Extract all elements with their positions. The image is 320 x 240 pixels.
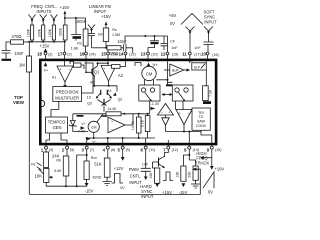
svg-text:(8): (8) [111,148,115,152]
svg-text:−: − [68,68,70,72]
svg-text:-15V: -15V [85,189,94,194]
svg-text:A2: A2 [118,73,124,78]
svg-text:51K: 51K [94,162,102,167]
svg-text:−: − [187,111,189,115]
svg-text:4X: 4X [107,89,112,93]
svg-text:10nF: 10nF [117,39,127,44]
svg-text:Q3: Q3 [87,102,92,106]
svg-text:Q2: Q2 [118,97,123,101]
svg-text:+: + [111,119,113,123]
svg-text:1M: 1M [98,33,103,37]
svg-text:(4): (4) [49,148,53,152]
svg-text:12: 12 [161,51,166,56]
svg-text:PWM: PWM [129,167,140,172]
svg-text:−: − [160,110,162,114]
svg-text:Rs: Rs [112,28,117,32]
svg-text:+: + [168,110,170,114]
svg-text:1X: 1X [87,96,92,100]
svg-text:1.8K: 1.8K [71,46,79,50]
svg-text:TRACK: TRACK [195,160,209,165]
svg-text:(15): (15) [215,148,221,152]
svg-text:+10V: +10V [214,166,224,171]
svg-text:+: + [60,68,62,72]
svg-text:-1.3V: -1.3V [151,102,160,106]
svg-text:CM: CM [146,71,153,76]
svg-text:0V: 0V [208,190,213,195]
svg-text:CNTL: CNTL [130,174,141,179]
svg-text:10K: 10K [35,174,43,179]
svg-text:V+: V+ [81,122,85,126]
svg-text:14: 14 [119,51,124,56]
svg-text:+12V: +12V [114,166,124,171]
svg-text:14.4K: 14.4K [131,120,135,130]
svg-text:12K: 12K [175,171,179,178]
svg-text:CONV: CONV [196,124,207,128]
svg-text:100K: 100K [48,28,52,37]
svg-text:(7): (7) [90,148,94,152]
svg-text:Q1: Q1 [94,70,100,75]
svg-text:9.1K: 9.1K [141,119,145,127]
svg-text:MULTIPLIER: MULTIPLIER [55,95,79,100]
svg-text:(22): (22) [129,52,135,56]
svg-text:CM: CM [91,125,97,129]
svg-text:100K: 100K [26,28,30,37]
svg-text:11: 11 [182,51,187,56]
svg-text:A1: A1 [52,76,56,80]
svg-text:SLP: SLP [194,66,201,70]
svg-text:100nF: 100nF [75,19,87,24]
svg-text:0V: 0V [170,21,175,26]
svg-text:20K: 20K [188,171,192,178]
svg-text:(16): (16) [212,53,218,57]
svg-text:VIEW: VIEW [13,100,25,105]
svg-text:1M: 1M [19,63,25,68]
svg-text:15: 15 [101,51,106,56]
svg-text:V+: V+ [44,69,49,73]
svg-text:5.6K: 5.6K [54,169,62,173]
svg-text:Rxx: Rxx [91,156,97,160]
svg-text:(12): (12) [172,148,178,152]
svg-text:470Ω: 470Ω [12,34,22,39]
svg-text:18: 18 [37,51,42,56]
svg-text:Rz: Rz [31,162,36,166]
svg-text:+15V: +15V [40,44,50,49]
svg-text:360K: 360K [59,27,63,36]
svg-text:(5): (5) [70,148,74,152]
svg-text:(23): (23) [111,52,117,56]
svg-text:10nF: 10nF [14,51,24,56]
svg-text:+15V: +15V [60,5,70,10]
svg-text:620Ω: 620Ω [93,176,102,180]
svg-text:+15V: +15V [101,14,111,19]
svg-text:(3): (3) [48,52,52,56]
svg-text:+5V: +5V [169,13,177,18]
svg-text:(2): (2) [67,52,71,56]
svg-text:1.5M: 1.5M [112,33,120,37]
svg-text:+: + [178,111,180,115]
svg-text:PRECISION: PRECISION [56,89,79,94]
svg-text:(24): (24) [89,52,95,56]
svg-text:14.4K: 14.4K [107,107,117,111]
svg-text:1nF: 1nF [171,46,178,50]
svg-text:200K: 200K [37,28,41,37]
svg-text:10: 10 [201,51,206,56]
svg-text:Rs: Rs [77,41,82,45]
svg-text:V−: V− [92,140,97,144]
svg-text:−: − [111,128,113,132]
svg-text:4X: 4X [90,81,95,85]
svg-text:GEN: GEN [53,125,62,130]
svg-text:INPUTS: INPUTS [36,9,51,14]
svg-text:+: + [103,67,105,71]
svg-text:7.4V: 7.4V [78,129,86,133]
svg-text:Rb: Rb [56,158,61,162]
svg-text:V+: V+ [152,63,158,68]
svg-text:1nF: 1nF [142,162,149,166]
svg-text:(11): (11) [149,148,155,152]
svg-text:7.2K: 7.2K [208,89,212,97]
svg-text:(19): (19) [172,52,178,56]
svg-text:13: 13 [141,51,146,56]
svg-text:(9): (9) [126,148,130,152]
svg-text:(20): (20) [151,52,157,56]
svg-text:TEMPCO: TEMPCO [48,119,66,124]
svg-text:(17): (17) [194,52,200,56]
svg-text:0V: 0V [120,186,125,190]
svg-text:CF: CF [170,39,176,43]
svg-text:BUF: BUF [172,69,179,73]
svg-text:17: 17 [58,51,63,56]
svg-text:15K: 15K [149,172,153,179]
svg-text:INPUT: INPUT [204,20,217,25]
svg-text:16: 16 [80,51,85,56]
svg-text:1nF: 1nF [194,46,201,50]
